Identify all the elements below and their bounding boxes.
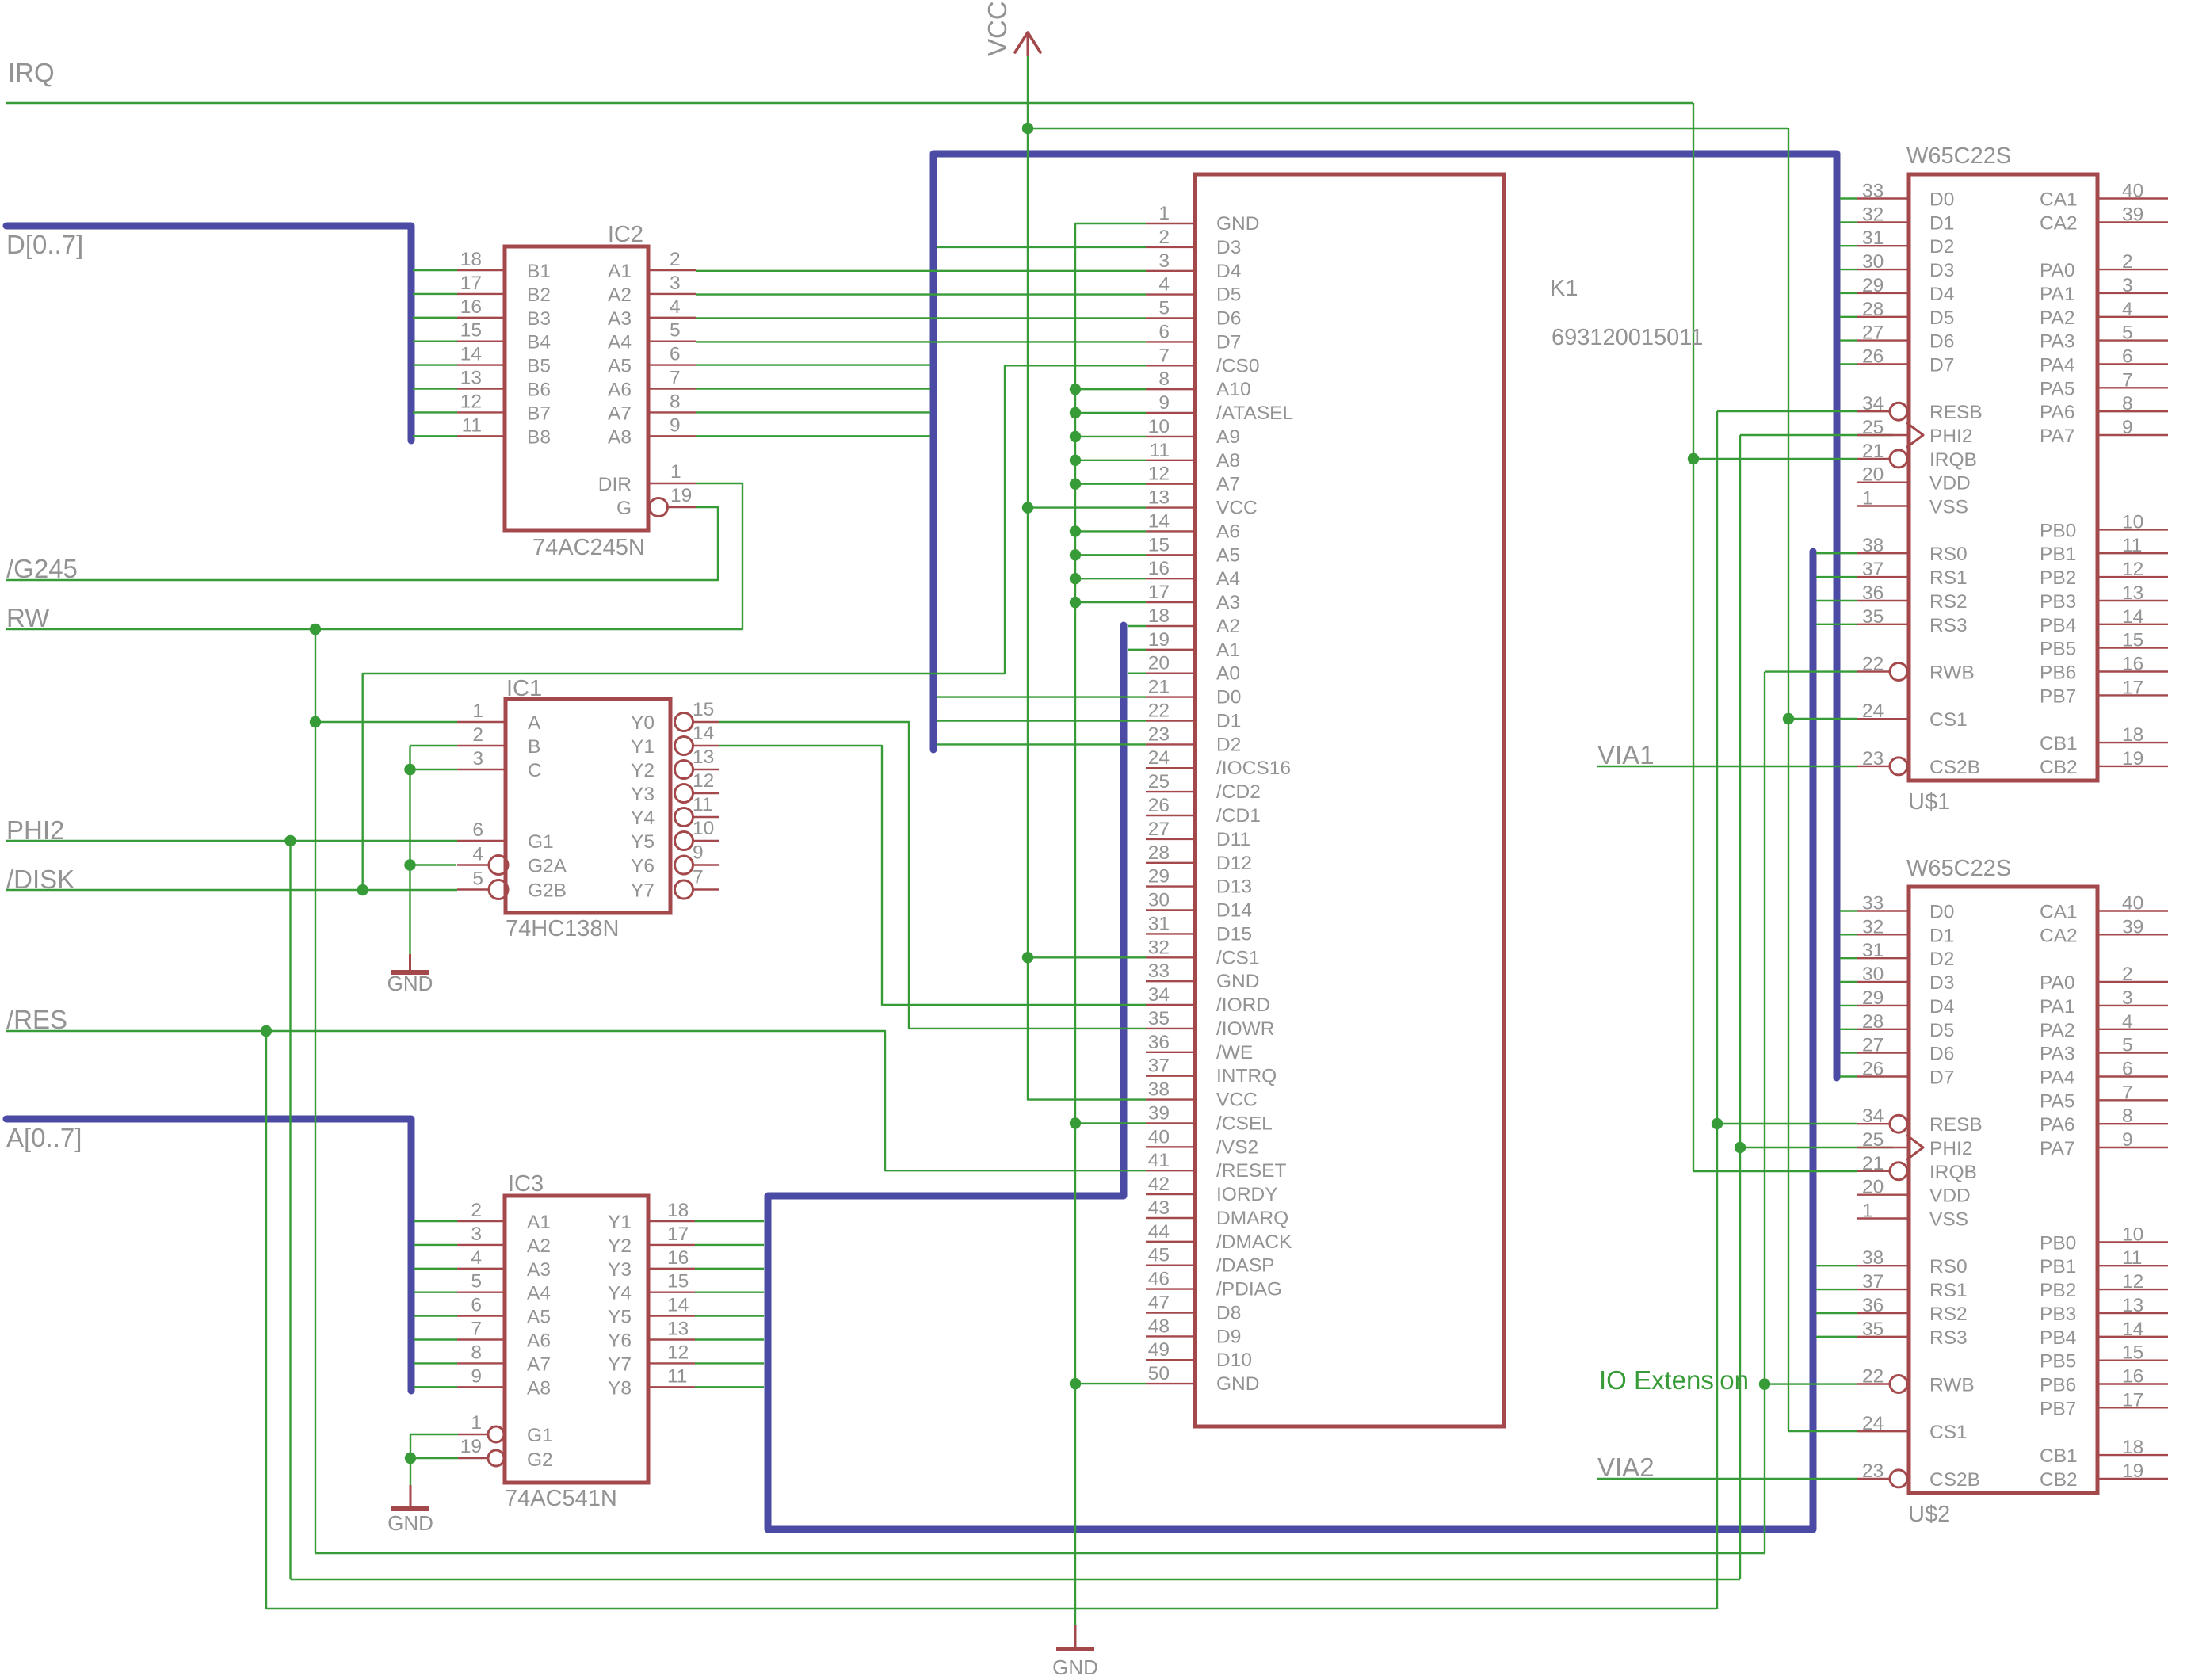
svg-text:13: 13 <box>2122 1295 2143 1316</box>
U$2 pin PA7 (9) <box>2097 1147 2168 1148</box>
K1 pin 45 /DASP <box>1146 1264 1195 1266</box>
svg-text:18: 18 <box>460 249 482 270</box>
U$2 pin PA6 (8) <box>2097 1123 2168 1124</box>
svg-text:11: 11 <box>1150 440 1170 461</box>
IC2 pin A7 (8) <box>648 411 696 413</box>
svg-text:19: 19 <box>2122 1460 2143 1482</box>
svg-text:/DASP: /DASP <box>1216 1255 1275 1277</box>
svg-text:Y0: Y0 <box>631 712 655 734</box>
U$2 pin PB6 (16) <box>2097 1383 2168 1384</box>
wire IC2 A8 to data bus <box>696 435 930 437</box>
U$1 pin D7 (26) <box>1840 363 1857 365</box>
junction VCC at K1 pin32 <box>1022 952 1033 963</box>
wire GND to K1 pin1 <box>1075 223 1146 224</box>
svg-text:D5: D5 <box>1929 307 1954 329</box>
K1 pin 39 /CSEL <box>1146 1122 1195 1124</box>
svg-text:PB6: PB6 <box>2040 662 2076 684</box>
svg-text:3: 3 <box>472 748 483 769</box>
svg-text:Y4: Y4 <box>631 808 655 829</box>
IC3 pin A4 (5) <box>414 1291 457 1292</box>
svg-text:7: 7 <box>1158 345 1170 366</box>
svg-text:PB3: PB3 <box>2040 1304 2076 1325</box>
svg-text:VCC: VCC <box>1216 498 1258 519</box>
K1 pin 35 /IOWR <box>1146 1028 1195 1029</box>
svg-text:29: 29 <box>1862 275 1884 296</box>
svg-text:47: 47 <box>1148 1292 1170 1314</box>
IC1 pin G2A (4) <box>457 864 489 865</box>
bus address/RS ring (bottom) <box>768 552 1813 1529</box>
IC2 pin B8 (11) <box>413 435 457 437</box>
U$2 pin CA2 (39) <box>2097 934 2168 935</box>
IC1 pin Y2 (13) <box>675 761 693 779</box>
IC3 pin Y5 (14) <box>648 1315 695 1316</box>
svg-text:CA1: CA1 <box>2040 902 2078 923</box>
svg-text:10: 10 <box>2122 511 2143 533</box>
K1 pin 21 D0 <box>1146 696 1195 697</box>
svg-text:19: 19 <box>1148 629 1170 651</box>
wire IC2 A4 to K1 pin6 <box>696 341 1146 342</box>
svg-text:3: 3 <box>2122 275 2133 296</box>
U$2 pin D3 (30) <box>1840 981 1857 983</box>
K1 pin 34 /IORD <box>1146 1004 1195 1006</box>
svg-text:PA6: PA6 <box>2040 1114 2075 1136</box>
svg-text:RWB: RWB <box>1929 1375 1975 1396</box>
svg-text:D0: D0 <box>1929 902 1954 923</box>
svg-text:G: G <box>616 498 632 519</box>
svg-text:Y7: Y7 <box>608 1354 632 1375</box>
svg-text:10: 10 <box>693 818 714 839</box>
svg-text:25: 25 <box>1862 1129 1884 1151</box>
svg-text:5: 5 <box>2122 323 2133 344</box>
svg-text:16: 16 <box>2122 654 2143 675</box>
wire GND to K1 pin15 <box>1075 554 1146 556</box>
svg-text:PB2: PB2 <box>2040 567 2076 589</box>
svg-text:31: 31 <box>1862 940 1884 961</box>
svg-text:16: 16 <box>667 1247 689 1269</box>
svg-text:/IORD: /IORD <box>1216 995 1270 1016</box>
wire /RES bottom run <box>266 1608 1717 1609</box>
U$1 pin RS1 (37) <box>1816 576 1857 578</box>
svg-text:17: 17 <box>667 1224 689 1245</box>
K1 pin 10 A9 <box>1146 436 1195 437</box>
svg-text:18: 18 <box>2122 1437 2143 1458</box>
svg-text:6: 6 <box>670 344 681 365</box>
svg-text:DIR: DIR <box>598 474 632 495</box>
svg-text:32: 32 <box>1148 937 1170 958</box>
svg-text:38: 38 <box>1148 1079 1170 1101</box>
svg-text:/WE: /WE <box>1216 1042 1253 1063</box>
svg-text:IORDY: IORDY <box>1216 1184 1278 1205</box>
U$1 pin PB2 (12) <box>2097 576 2168 578</box>
svg-text:A3: A3 <box>1216 592 1240 613</box>
wire GND to K1 pin17 <box>1075 601 1146 603</box>
U$1 pin PA7 (9) <box>2097 434 2168 436</box>
svg-text:GND: GND <box>387 1511 433 1535</box>
K1 pin 46 /PDIAG <box>1146 1288 1195 1289</box>
K1 pin 40 /VS2 <box>1146 1146 1195 1147</box>
junction GND at K1 pin17 <box>1070 597 1081 608</box>
svg-text:A1: A1 <box>608 261 632 282</box>
svg-text:39: 39 <box>1148 1102 1170 1124</box>
K1 pin 14 A6 <box>1146 530 1195 532</box>
svg-text:38: 38 <box>1862 1247 1884 1269</box>
svg-text:D1: D1 <box>1929 925 1954 946</box>
U$2 pin D1 (32) <box>1840 934 1857 935</box>
U$2 pin VSS (1) <box>1857 1217 1907 1219</box>
U$2 pin PA1 (3) <box>2097 1005 2168 1006</box>
svg-text:PA0: PA0 <box>2040 972 2075 994</box>
svg-text:7: 7 <box>471 1319 482 1340</box>
K1 pin 44 /DMACK <box>1146 1241 1195 1243</box>
svg-text:/ATASEL: /ATASEL <box>1216 403 1293 424</box>
wire IC3 Y8 to ring bus <box>695 1386 764 1388</box>
K1 pin 22 D1 <box>1146 720 1195 721</box>
svg-text:/CS0: /CS0 <box>1216 355 1259 376</box>
svg-text:D3: D3 <box>1216 237 1241 258</box>
IC2 pin DIR (1) <box>648 483 696 484</box>
K1 pin 17 A3 <box>1146 601 1195 603</box>
K1 pin 20 A0 <box>1146 673 1195 674</box>
U$1 pin D1 (32) <box>1840 221 1857 223</box>
svg-text:PHI2: PHI2 <box>1929 426 1972 447</box>
svg-text:A5: A5 <box>1216 544 1240 566</box>
IC3 pin Y7 (12) <box>648 1362 695 1364</box>
svg-text:15: 15 <box>1148 534 1170 556</box>
svg-text:PA6: PA6 <box>2040 402 2075 423</box>
svg-text:/RES: /RES <box>6 1005 67 1034</box>
K1 pin 27 D11 <box>1146 838 1195 840</box>
IC3 pin Y8 (11) <box>648 1386 695 1388</box>
svg-text:A4: A4 <box>1216 568 1240 590</box>
svg-text:D[0..7]: D[0..7] <box>6 230 83 259</box>
U$2 pin D0 (33) <box>1840 910 1857 911</box>
svg-text:GND: GND <box>1216 971 1259 992</box>
svg-text:PB3: PB3 <box>2040 591 2076 613</box>
junction GND at K1 pin11 <box>1070 455 1081 466</box>
wire RW bottom run <box>315 1552 1765 1554</box>
svg-text:8: 8 <box>2122 393 2133 414</box>
U$1 pin PHI2 (25) <box>1857 434 1907 436</box>
junction IC1 C <box>404 764 415 775</box>
svg-text:PA5: PA5 <box>2040 378 2075 399</box>
svg-text:A9: A9 <box>1216 426 1240 448</box>
svg-text:PB0: PB0 <box>2040 1232 2076 1254</box>
IC2 pin A4 (5) <box>648 341 696 342</box>
svg-text:B3: B3 <box>527 308 551 330</box>
svg-text:24: 24 <box>1862 1413 1884 1434</box>
svg-text:IRQB: IRQB <box>1929 449 1977 471</box>
U$2 pin RESB (34) <box>1857 1123 1890 1124</box>
svg-text:PB5: PB5 <box>2040 1351 2076 1373</box>
svg-text:23: 23 <box>1862 1460 1884 1482</box>
IC3 pin Y6 (13) <box>648 1338 695 1340</box>
svg-text:30: 30 <box>1862 964 1884 985</box>
svg-text:15: 15 <box>460 320 482 342</box>
svg-text:PA3: PA3 <box>2040 1044 2075 1065</box>
svg-text:A3: A3 <box>608 308 632 330</box>
K1 pin 9 /ATASEL <box>1146 412 1195 414</box>
svg-text:D7: D7 <box>1929 1067 1954 1089</box>
svg-text:43: 43 <box>1148 1197 1170 1219</box>
svg-text:D6: D6 <box>1929 1044 1954 1065</box>
U$1 pin IRQB (21) <box>1857 458 1890 460</box>
svg-text:DMARQ: DMARQ <box>1216 1208 1288 1229</box>
svg-text:32: 32 <box>1862 204 1884 225</box>
svg-text:D12: D12 <box>1216 853 1252 874</box>
svg-text:1: 1 <box>471 1412 482 1434</box>
svg-text:21: 21 <box>1862 441 1884 462</box>
svg-text:1: 1 <box>670 461 681 483</box>
svg-text:D5: D5 <box>1216 284 1241 306</box>
U$1 pin CS2B (23) <box>1857 766 1890 767</box>
svg-text:Y7: Y7 <box>631 880 655 902</box>
IC1 pin Y3 (12) <box>675 785 693 803</box>
IC3 pin A1 (2) <box>414 1220 457 1222</box>
svg-text:G2B: G2B <box>528 880 567 902</box>
U$1 pin PB0 (10) <box>2097 529 2168 530</box>
svg-text:IC3: IC3 <box>508 1171 544 1197</box>
svg-text:4: 4 <box>472 844 483 865</box>
svg-text:VCC: VCC <box>1216 1090 1258 1111</box>
svg-text:9: 9 <box>471 1365 482 1387</box>
svg-text:/CSEL: /CSEL <box>1216 1113 1273 1134</box>
U$1 pin VDD (20) <box>1857 482 1907 483</box>
junction /RES at U$2 <box>1712 1118 1723 1129</box>
junction IC1 G2A <box>404 859 415 870</box>
wire IC2 A6 to data bus <box>696 388 930 389</box>
U$1 pin VSS (1) <box>1857 505 1907 506</box>
wire IC3 Y1 to ring bus <box>695 1220 764 1222</box>
wire IC3 Y6 to ring bus <box>695 1338 764 1340</box>
svg-text:693120015011: 693120015011 <box>1552 325 1703 350</box>
IC1 pin B (2) <box>457 745 506 746</box>
svg-text:17: 17 <box>460 273 482 294</box>
svg-text:34: 34 <box>1862 1105 1884 1127</box>
svg-text:27: 27 <box>1148 819 1170 840</box>
wire GND to K1 pin50 <box>1075 1383 1146 1384</box>
IC1 pin Y7 (7) <box>675 880 693 899</box>
svg-text:A4: A4 <box>527 1283 551 1304</box>
U$1 pin PA4 (6) <box>2097 363 2168 365</box>
U$1 pin D3 (30) <box>1840 269 1857 270</box>
svg-text:19: 19 <box>2122 748 2143 769</box>
svg-text:VSS: VSS <box>1929 1209 1968 1231</box>
svg-text:14: 14 <box>667 1295 689 1316</box>
svg-text:A8: A8 <box>1216 450 1240 472</box>
svg-text:VDD: VDD <box>1929 1186 1971 1207</box>
wire PHI2 to U$1 PHI2 <box>1740 434 1893 436</box>
svg-text:5: 5 <box>471 1271 482 1292</box>
svg-text:PA1: PA1 <box>2040 996 2075 1018</box>
svg-text:D1: D1 <box>1929 212 1954 234</box>
junction PHI2 branch <box>284 835 296 846</box>
svg-text:VCC: VCC <box>983 1 1012 56</box>
svg-text:11: 11 <box>2122 535 2142 556</box>
svg-text:CB1: CB1 <box>2040 1445 2078 1467</box>
svg-text:PA7: PA7 <box>2040 426 2075 447</box>
svg-text:20: 20 <box>1148 653 1170 674</box>
svg-text:D4: D4 <box>1216 261 1241 282</box>
svg-text:D3: D3 <box>1929 972 1954 994</box>
svg-text:INTRQ: INTRQ <box>1216 1066 1277 1087</box>
svg-text:A6: A6 <box>527 1331 551 1352</box>
svg-text:7: 7 <box>2122 369 2133 391</box>
svg-text:IC2: IC2 <box>608 222 643 247</box>
svg-text:24: 24 <box>1862 701 1884 722</box>
wire K1 pin2 D3 bus entry <box>937 246 1146 248</box>
K1 pin 12 A7 <box>1146 483 1195 485</box>
svg-text:/IOCS16: /IOCS16 <box>1216 758 1291 779</box>
wire IC3 G1 gnd chain <box>410 1434 458 1485</box>
svg-text:15: 15 <box>2122 630 2143 651</box>
svg-text:GND: GND <box>387 972 433 995</box>
svg-text:14: 14 <box>693 723 714 744</box>
K1 pin 13 VCC <box>1146 506 1195 508</box>
wire IRQ to U$1 IRQB <box>1693 458 1857 460</box>
svg-text:D15: D15 <box>1216 923 1252 945</box>
svg-text:28: 28 <box>1862 299 1884 320</box>
svg-text:24: 24 <box>1148 747 1170 769</box>
svg-text:Y6: Y6 <box>608 1331 632 1352</box>
svg-text:7: 7 <box>693 867 704 888</box>
U$2 pin PB4 (14) <box>2097 1336 2168 1338</box>
svg-text:A1: A1 <box>527 1212 551 1233</box>
K1 pin 7 /CS0 <box>1146 365 1195 366</box>
svg-text:PA7: PA7 <box>2040 1138 2075 1159</box>
svg-text:14: 14 <box>1148 510 1170 532</box>
svg-text:A5: A5 <box>608 356 632 377</box>
svg-text:33: 33 <box>1862 893 1884 914</box>
IC1 pin Y0 (15) <box>675 713 693 731</box>
svg-text:PB4: PB4 <box>2040 1327 2076 1349</box>
svg-text:20: 20 <box>1862 464 1884 486</box>
IC3 pin G1 (1) <box>458 1434 488 1435</box>
svg-text:Y5: Y5 <box>631 831 655 853</box>
wire VCC to U$1 CS1 <box>1788 718 1857 720</box>
svg-text:A7: A7 <box>1216 474 1240 495</box>
svg-text:5: 5 <box>670 320 681 342</box>
U$1 pin PA2 (4) <box>2097 316 2168 318</box>
wire IRQ to U$2 IRQB <box>1693 1170 1857 1172</box>
svg-text:D2: D2 <box>1929 949 1954 970</box>
IC3 pin A7 (8) <box>414 1362 457 1364</box>
svg-text:PB1: PB1 <box>2040 1256 2076 1277</box>
svg-text:/IOWR: /IOWR <box>1216 1018 1275 1040</box>
junction GND at K1 pin10 <box>1070 431 1081 442</box>
svg-text:PHI2: PHI2 <box>1929 1138 1972 1159</box>
wire IRQ vertical to VIAs <box>1693 103 1694 1171</box>
ground symbol bottom <box>1074 1625 1077 1648</box>
svg-text:31: 31 <box>1148 913 1170 934</box>
svg-text:1: 1 <box>1158 203 1170 224</box>
wire K1 pin23 D2 to data bus <box>937 743 1146 745</box>
svg-text:14: 14 <box>2122 606 2143 628</box>
U$1 pin CA2 (39) <box>2097 221 2168 223</box>
svg-text:Y1: Y1 <box>608 1212 632 1233</box>
svg-text:35: 35 <box>1862 606 1884 628</box>
junction PHI2 at U$2 <box>1735 1142 1746 1153</box>
K1 pin 49 D10 <box>1146 1359 1195 1361</box>
K1 pin 26 /CD1 <box>1146 815 1195 816</box>
svg-text:23: 23 <box>1862 748 1884 769</box>
svg-text:Y2: Y2 <box>631 760 655 781</box>
svg-text:74AC245N: 74AC245N <box>532 535 645 560</box>
svg-text:D6: D6 <box>1216 308 1241 330</box>
svg-text:4: 4 <box>471 1247 482 1269</box>
svg-text:Y1: Y1 <box>631 736 655 758</box>
svg-text:/RESET: /RESET <box>1216 1160 1287 1182</box>
svg-text:/VS2: /VS2 <box>1216 1136 1258 1158</box>
svg-text:2: 2 <box>2122 964 2133 985</box>
IC2 pin B3 (16) <box>413 317 457 319</box>
svg-text:A10: A10 <box>1216 379 1251 400</box>
svg-text:PA2: PA2 <box>2040 307 2075 329</box>
svg-text:A7: A7 <box>608 403 632 424</box>
U$2 pin PB2 (12) <box>2097 1289 2168 1290</box>
svg-text:8: 8 <box>670 391 681 412</box>
svg-text:40: 40 <box>1148 1126 1170 1147</box>
svg-text:Y6: Y6 <box>631 856 655 877</box>
svg-text:8: 8 <box>471 1342 482 1363</box>
U$1 pin RWB (22) <box>1857 670 1890 672</box>
wire Y0 to K1 /IOWR <box>719 722 1146 1029</box>
U$2 pin CA1 (40) <box>2097 910 2168 911</box>
svg-text:50: 50 <box>1148 1363 1170 1384</box>
wire IC3 Y2 to ring bus <box>695 1244 764 1246</box>
U$2 pin PA5 (7) <box>2097 1099 2168 1101</box>
svg-text:PB1: PB1 <box>2040 544 2076 565</box>
svg-text:49: 49 <box>1148 1339 1170 1361</box>
K1 pin 43 DMARQ <box>1146 1217 1195 1219</box>
U$1 pin PA3 (5) <box>2097 339 2168 341</box>
U$2 pin PA2 (4) <box>2097 1029 2168 1030</box>
svg-text:4: 4 <box>2122 299 2133 320</box>
svg-text:A6: A6 <box>1216 521 1240 542</box>
IC3 box <box>505 1196 648 1483</box>
svg-text:40: 40 <box>2122 893 2143 914</box>
svg-text:4: 4 <box>1158 274 1170 296</box>
K1 pin 6 D7 <box>1146 341 1195 342</box>
U$1 pin CS1 (24) <box>1857 718 1907 720</box>
U$2 pin PB5 (15) <box>2097 1359 2168 1361</box>
K1 pin 47 D8 <box>1146 1312 1195 1313</box>
svg-text:RWB: RWB <box>1929 662 1975 684</box>
wire IC2 A3 to K1 pin5 <box>696 317 1146 319</box>
svg-text:PA3: PA3 <box>2040 331 2075 353</box>
svg-text:14: 14 <box>2122 1319 2143 1340</box>
U$2 pin D5 (28) <box>1840 1029 1857 1030</box>
svg-text:33: 33 <box>1148 960 1170 982</box>
svg-text:9: 9 <box>670 414 681 436</box>
svg-text:B4: B4 <box>527 332 551 353</box>
svg-text:44: 44 <box>1148 1221 1170 1243</box>
junction VCC at U$1 CS1 <box>1783 713 1794 724</box>
ground symbol IC3 <box>410 1485 412 1508</box>
svg-text:37: 37 <box>1148 1056 1170 1077</box>
svg-text:11: 11 <box>693 794 712 815</box>
svg-text:A2: A2 <box>527 1235 551 1257</box>
junction IRQ at U$1 IRQB <box>1688 453 1699 464</box>
svg-text:RS1: RS1 <box>1929 1280 1968 1301</box>
junction GND at K1 pin12 <box>1070 479 1081 490</box>
wire K1 pin20 A0 bus entry <box>1128 673 1146 674</box>
svg-text:B1: B1 <box>527 261 551 282</box>
svg-text:D6: D6 <box>1929 331 1954 353</box>
svg-text:CS1: CS1 <box>1929 1422 1968 1443</box>
wire RW to U$1 RWB <box>1765 670 1857 672</box>
svg-text:11: 11 <box>667 1365 687 1387</box>
svg-text:39: 39 <box>2122 204 2143 225</box>
